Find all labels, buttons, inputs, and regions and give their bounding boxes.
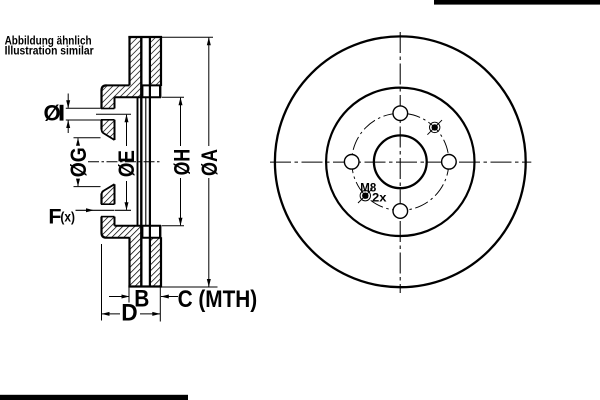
- section bore chamfer bottom: [102, 184, 115, 195]
- scan border artifact top right: [434, 0, 600, 5]
- svg-text:Ø: Ø: [44, 101, 61, 126]
- svg-text:2x: 2x: [372, 193, 387, 205]
- M8 screw hole top right tick: [427, 120, 442, 135]
- M8 screw hole bottom left: [360, 191, 370, 201]
- dimension E center marks: [96, 113, 131, 115]
- dimension D line with arrows: [102, 313, 121, 315]
- dimension I extension lines: [66, 107, 101, 109]
- dimension H extension lines: [162, 96, 184, 98]
- front view center bore circle: [374, 135, 427, 188]
- M8 screw hole top right: [430, 122, 440, 132]
- section hatch bottom flange and outboard ring: [102, 217, 142, 287]
- front view horizontal centerline: [270, 161, 531, 163]
- section outline inboard face top: [160, 36, 162, 86]
- section outline vent slot left wall: [140, 36, 142, 288]
- dimension B C D shared extension line: [159, 287, 161, 322]
- section outline vent slot right wall: [149, 36, 151, 288]
- section vent slot bottom line: [141, 84, 161, 86]
- dimension B arrows: [109, 296, 129, 298]
- section projected edge thin line: [145, 97, 147, 226]
- svg-text:Illustration similar: Illustration similar: [5, 44, 94, 58]
- dimension I arrows: [67, 94, 69, 108]
- bolt hole right: [442, 155, 457, 170]
- section hat ceiling top: [115, 96, 162, 98]
- dimension G extension lines: [74, 137, 101, 139]
- dimension B extension line left: [128, 287, 130, 303]
- M8 screw hole bottom left tick: [358, 188, 373, 203]
- section flange top face line: [107, 84, 130, 86]
- section hatch inboard ring top: [150, 37, 161, 86]
- bolt hole left: [344, 155, 359, 170]
- section bore chamfer top: [102, 129, 115, 140]
- section outline outer diameter edge bottom: [128, 285, 162, 287]
- front view vertical centerline: [399, 32, 401, 293]
- svg-text:(x): (x): [60, 208, 75, 224]
- dimension A line with arrows: [208, 38, 210, 146]
- dimension A extension lines: [162, 36, 213, 38]
- dimension H line with arrows: [180, 98, 182, 146]
- svg-text:ØA: ØA: [197, 149, 222, 176]
- front view hat flange circle: [326, 88, 474, 236]
- section bolt hole edge lines top: [101, 108, 115, 110]
- section outline outer diameter edge top: [128, 36, 162, 38]
- front view bolt circle dash-dot: [352, 113, 449, 210]
- dimension D extension line left: [101, 244, 103, 321]
- section hat outer mounting face: [102, 85, 107, 237]
- bolt hole top: [393, 106, 408, 121]
- section outline outboard friction face: [128, 36, 130, 85]
- scan border artifact bottom left: [0, 395, 188, 400]
- section hat wall inner face: [114, 97, 116, 226]
- dimension E line with arrows: [126, 115, 128, 146]
- svg-text:ØG: ØG: [66, 147, 91, 177]
- section axis centerline: [88, 161, 162, 163]
- svg-text:ØE: ØE: [114, 150, 139, 177]
- section projected edge line: [137, 97, 139, 226]
- section hatch inboard ring bottom: [150, 238, 161, 287]
- svg-text:D: D: [121, 300, 137, 327]
- section bolt hole edge lines bottom: [101, 203, 115, 205]
- section hatch hat wall lower block with bore chamfer: [102, 184, 115, 204]
- bolt hole bottom: [393, 204, 408, 219]
- section hatch outboard ring and hat flange: [102, 37, 142, 109]
- section outline inboard face bottom: [159, 225, 161, 238]
- section hat ceiling bottom: [115, 225, 162, 227]
- svg-text:ØH: ØH: [169, 149, 194, 176]
- section hatch hat wall upper block with bore chamfer: [102, 120, 115, 140]
- svg-text:C (MTH): C (MTH): [178, 286, 258, 313]
- leader F(x): [76, 209, 115, 211]
- front view outer circle: [275, 36, 526, 287]
- section flange bottom face line: [107, 237, 130, 239]
- dimension G arrows: [77, 138, 79, 144]
